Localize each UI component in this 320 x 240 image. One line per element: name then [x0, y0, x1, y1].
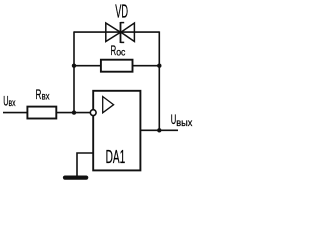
resistor Rвх	[27, 107, 56, 119]
node junction: right vertical and Roc branch	[157, 63, 161, 67]
wire: second feedback branch (Roc row)	[74, 65, 159, 67]
diode VD (bidirectional zener symbol)	[106, 22, 135, 43]
wire: output line to Uvyx	[140, 129, 178, 131]
node junction: output node	[157, 128, 161, 132]
resistor Rос	[101, 60, 133, 72]
op-amp DA1 rectangle	[93, 91, 140, 171]
node junction: left vertical and Roc branch	[72, 63, 76, 67]
svg-text:вх: вх	[42, 91, 50, 102]
svg-text:VD: VD	[115, 2, 128, 22]
svg-text:вх: вх	[9, 98, 16, 109]
svg-text:ос: ос	[116, 48, 125, 59]
wire: left feedback vertical	[73, 31, 75, 112]
wire: right feedback vertical	[158, 31, 160, 130]
wire: input line from Uvx	[3, 112, 91, 114]
op-amp inverting input circle	[90, 110, 96, 116]
svg-text:DA1: DA1	[106, 147, 126, 167]
svg-text:вых: вых	[176, 118, 192, 129]
ground	[65, 176, 86, 180]
node junction: inverting input node	[72, 110, 76, 114]
op-amp triangle symbol	[103, 97, 114, 113]
wire: non-inverting input to ground	[77, 153, 93, 176]
wire: top feedback branch	[74, 31, 159, 33]
